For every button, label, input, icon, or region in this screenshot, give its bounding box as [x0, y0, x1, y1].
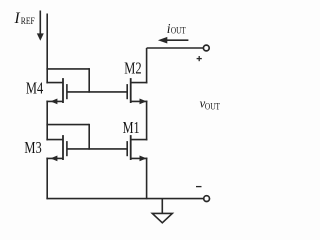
wire: bottom ground rail to - terminal	[46, 198, 203, 200]
svg-text:I: I	[14, 10, 21, 27]
transistor M1	[127, 135, 147, 161]
wire: IREF input rail down to drain of M4	[46, 14, 48, 84]
ground	[152, 199, 172, 223]
wire: node A branch horizontal from rail toward gate column	[46, 68, 89, 70]
wire: source of M4 down to drain of M3	[46, 101, 48, 141]
wire: source of M1 down to ground rail	[146, 158, 148, 200]
svg-text:OUT: OUT	[205, 102, 220, 112]
svg-text:OUT: OUT	[171, 26, 186, 36]
svg-text:REF: REF	[21, 16, 35, 26]
plus sign	[197, 56, 202, 61]
wire: node B branch vertical down to gate line of M3/M1	[88, 124, 90, 150]
output current arrow iOUT	[158, 37, 189, 44]
wire: shared gate line M4-M2	[67, 91, 127, 93]
wire: node B branch horizontal from rail toward gate column	[46, 124, 89, 126]
transistor M3	[46, 135, 67, 161]
transistor M4	[46, 78, 67, 104]
current source IREF arrow	[37, 11, 44, 41]
terminal + circle	[203, 45, 209, 51]
wire: + terminal down to drain of M2	[146, 48, 148, 83]
transistor M2	[127, 78, 147, 104]
minus sign	[196, 186, 202, 188]
wire: source of M3 down to ground rail	[46, 158, 48, 200]
svg-text:M1: M1	[123, 118, 140, 137]
wire: output node to + terminal	[147, 47, 204, 49]
wire: shared gate line M3-M1	[67, 148, 127, 150]
svg-text:M2: M2	[124, 59, 141, 78]
svg-text:M3: M3	[24, 138, 41, 157]
wire: source of M2 down to drain of M1	[146, 101, 148, 141]
wire: node A branch vertical down to gate line of M4/M2	[88, 68, 90, 93]
svg-text:M4: M4	[26, 78, 43, 97]
terminal - circle	[204, 196, 210, 202]
